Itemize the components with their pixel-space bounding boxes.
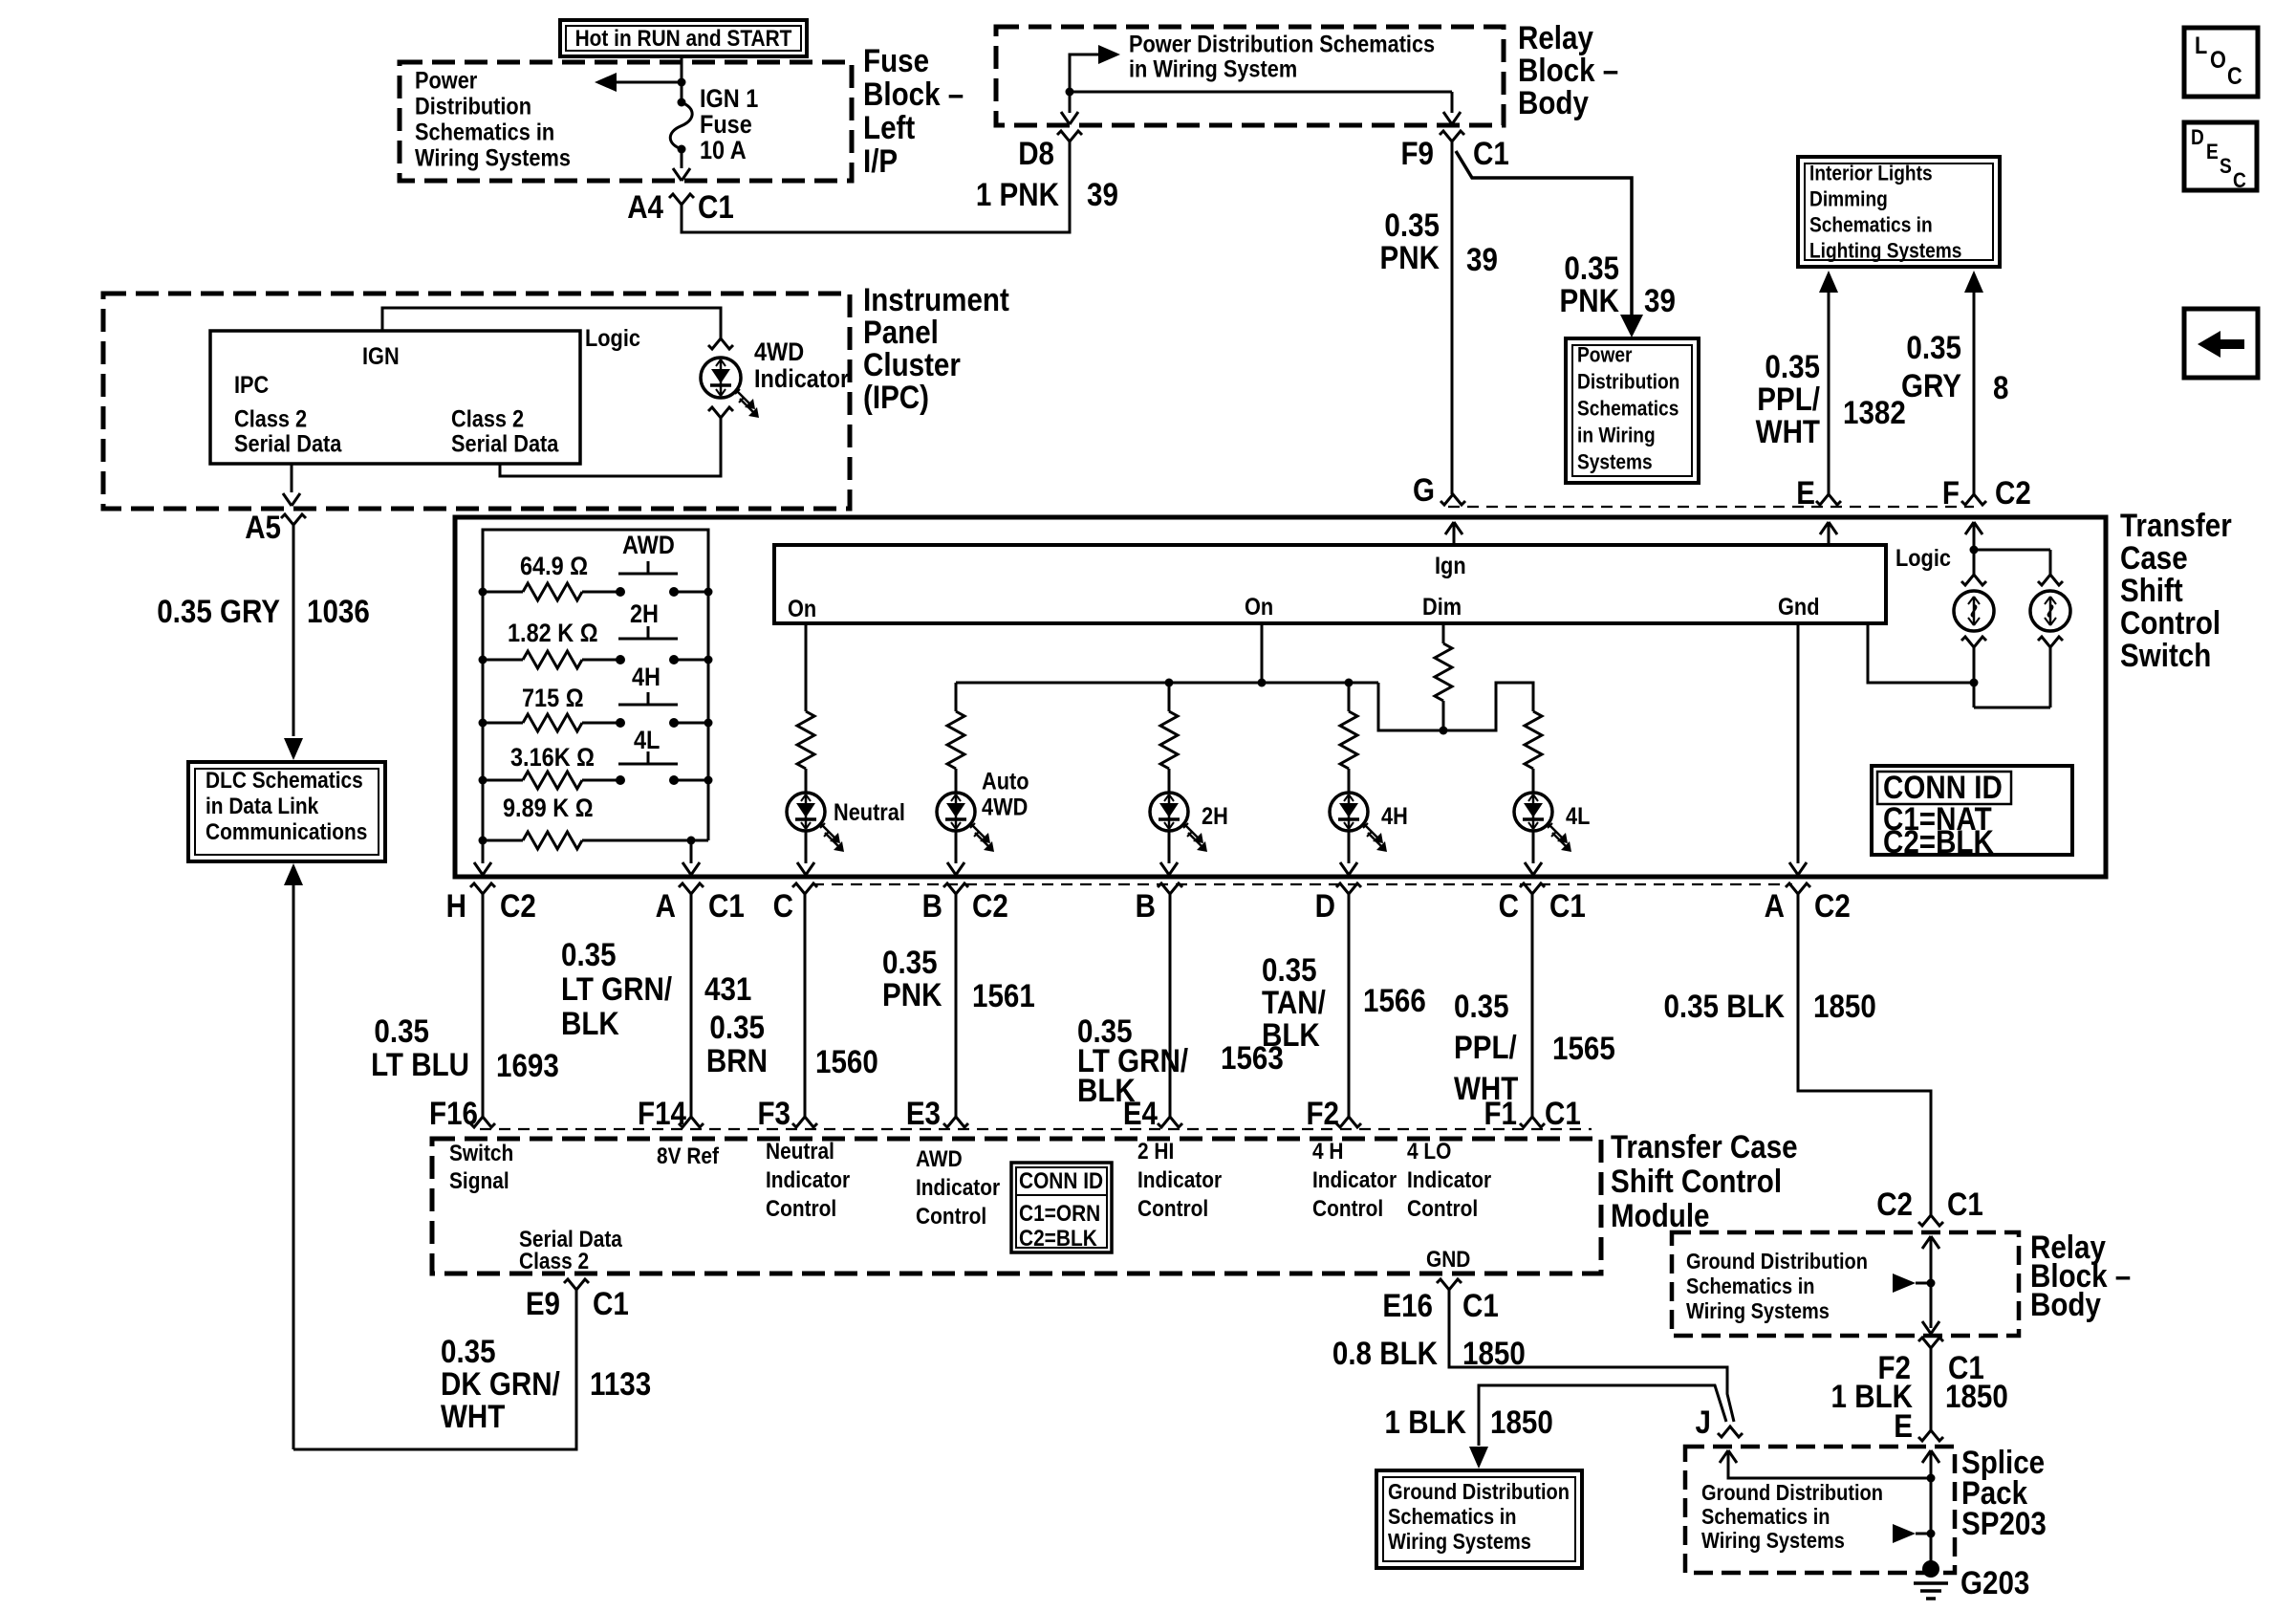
wire: 1 BLK 1850 to splice pack — [1930, 1348, 1933, 1430]
svg-text:C2=BLK: C2=BLK — [1883, 823, 1994, 860]
wire: ladder to H pin — [482, 840, 485, 863]
wire: Auto 4WD branch — [955, 683, 958, 711]
svg-text:0.35: 0.35 — [441, 1333, 496, 1369]
svg-text:C1: C1 — [1545, 1095, 1581, 1131]
svg-text:1133: 1133 — [590, 1365, 651, 1402]
svg-text:C2: C2 — [1876, 1186, 1913, 1222]
ground G203 — [1922, 1560, 1939, 1578]
connector F9 C1 — [1440, 131, 1464, 142]
svg-text:C2=BLK: C2=BLK — [1019, 1226, 1097, 1252]
dashed box: Transfer Case Shift Control Module — [432, 1139, 1601, 1274]
svg-text:0.35: 0.35 — [374, 1012, 429, 1049]
svg-text:4H: 4H — [1381, 803, 1408, 830]
svg-text:PPL/: PPL/ — [1757, 381, 1820, 417]
dashed box: Relay Block - Body (top) — [996, 27, 1504, 125]
thin dashed connector line above module — [480, 1128, 1592, 1130]
svg-text:WHT: WHT — [441, 1398, 506, 1434]
svg-text:E: E — [2206, 141, 2219, 164]
svg-text:J: J — [1696, 1404, 1711, 1440]
svg-text:On: On — [788, 596, 816, 622]
wire: LED to logic — [500, 418, 721, 476]
svg-text:Power: Power — [1577, 343, 1632, 367]
svg-text:Panel: Panel — [863, 314, 939, 350]
svg-text:1560: 1560 — [815, 1043, 878, 1079]
svg-text:Power: Power — [415, 67, 477, 94]
svg-text:1850: 1850 — [1945, 1378, 2008, 1414]
wire: indicator feed rail — [956, 682, 1378, 685]
svg-text:F2: F2 — [1306, 1095, 1339, 1131]
svg-text:Instrument: Instrument — [863, 281, 1009, 317]
svg-text:Cluster: Cluster — [863, 346, 961, 382]
svg-text:Neutral: Neutral — [766, 1138, 834, 1164]
svg-text:On: On — [1245, 594, 1273, 620]
svg-text:Relay: Relay — [1518, 19, 1593, 55]
DESC legend box — [2184, 122, 2257, 190]
svg-text:A4: A4 — [627, 188, 663, 225]
wire: Gnd to A pin — [1797, 623, 1800, 863]
node: fuse top — [678, 78, 686, 87]
svg-text:1561: 1561 — [972, 977, 1035, 1013]
svg-text:A: A — [1765, 887, 1785, 924]
splice arrow in relay block — [1893, 1274, 1916, 1293]
svg-text:PNK: PNK — [882, 976, 942, 1012]
svg-text:Block –: Block – — [863, 76, 964, 112]
svg-text:Ign: Ign — [1435, 553, 1466, 579]
wire: 2H branch — [1168, 683, 1171, 711]
resistor: Neutral branch — [797, 711, 814, 769]
svg-text:1850: 1850 — [1490, 1404, 1553, 1440]
wire: F feed arrow — [1965, 522, 1974, 534]
svg-text:2H: 2H — [1202, 803, 1228, 830]
svg-text:4L: 4L — [634, 727, 660, 755]
svg-text:4WD: 4WD — [754, 338, 804, 367]
svg-text:E: E — [1894, 1407, 1913, 1444]
svg-text:0.35: 0.35 — [1262, 951, 1317, 988]
svg-text:Systems: Systems — [1577, 450, 1653, 474]
svg-text:LT GRN/: LT GRN/ — [561, 970, 672, 1007]
connector into left lamp — [1961, 575, 1986, 585]
svg-text:0.35 GRY: 0.35 GRY — [157, 593, 280, 629]
svg-text:0.35: 0.35 — [1906, 329, 1961, 365]
svg-text:Indicator: Indicator — [1407, 1166, 1491, 1192]
wire: ladder to A pin — [690, 840, 693, 863]
svg-text:G203: G203 — [1960, 1564, 2029, 1600]
svg-text:1566: 1566 — [1363, 982, 1426, 1018]
svg-text:C1: C1 — [698, 188, 734, 225]
svg-text:IGN: IGN — [362, 343, 400, 370]
svg-text:4WD: 4WD — [982, 794, 1028, 820]
svg-text:C2: C2 — [1995, 474, 2031, 511]
wire: fuse output with arrow — [681, 149, 683, 168]
svg-text:C1: C1 — [1473, 135, 1509, 171]
connector F2 C1 — [1918, 1338, 1943, 1348]
wire: E PPL/WHT to interior lights — [1819, 271, 1838, 293]
svg-text:in Wiring: in Wiring — [1577, 424, 1656, 447]
svg-text:0.35: 0.35 — [1454, 988, 1509, 1024]
svg-text:1693: 1693 — [496, 1047, 559, 1083]
svg-text:Signal: Signal — [449, 1167, 509, 1193]
svg-text:431: 431 — [704, 970, 751, 1007]
splice arrow in splice pack — [1893, 1524, 1916, 1543]
dashed box: Instrument Panel Cluster (IPC) — [103, 294, 850, 509]
svg-text:C2: C2 — [500, 887, 536, 924]
svg-text:Indicator: Indicator — [1137, 1166, 1222, 1192]
svg-text:1.82 K Ω: 1.82 K Ω — [508, 620, 598, 648]
resistor 9.89K ohm row — [483, 839, 523, 842]
svg-text:Ground Distribution: Ground Distribution — [1686, 1249, 1868, 1274]
svg-text:Auto: Auto — [982, 768, 1029, 795]
svg-text:Switch: Switch — [2120, 637, 2211, 673]
svg-text:F: F — [1942, 474, 1960, 511]
svg-text:Fuse: Fuse — [700, 111, 752, 140]
svg-text:Control: Control — [1137, 1195, 1208, 1221]
resistor 3.16K ohm row — [483, 779, 523, 782]
connector E (splice pack) — [1918, 1430, 1943, 1441]
box: Ground Distribution Schematics in Wiring Systems (solid) — [1376, 1470, 1582, 1568]
svg-text:G: G — [1413, 471, 1435, 508]
svg-text:Class 2: Class 2 — [451, 405, 524, 432]
box: switch resistor ladder — [483, 530, 708, 840]
svg-text:Wiring Systems: Wiring Systems — [1686, 1298, 1830, 1324]
svg-text:39: 39 — [1644, 282, 1676, 318]
svg-text:in Wiring System: in Wiring System — [1129, 55, 1297, 82]
wire: Dim branch resistor — [1442, 623, 1445, 643]
connector fork C (switch side) — [792, 883, 817, 894]
lamp: right illumination — [2030, 591, 2070, 631]
LED: Neutral indicator — [787, 793, 825, 831]
svg-text:Control: Control — [916, 1203, 986, 1229]
fuse IGN 1 Fuse 10 A — [670, 102, 692, 149]
svg-text:C: C — [2227, 63, 2242, 90]
svg-text:O: O — [2210, 47, 2226, 74]
svg-text:SP203: SP203 — [1961, 1505, 2047, 1541]
svg-text:Dim: Dim — [1422, 594, 1462, 620]
LED: 4H indicator — [1330, 793, 1368, 831]
svg-text:Case: Case — [2120, 539, 2188, 576]
wire: ignition feed into fuse — [681, 56, 683, 82]
resistor 64.9 ohm row — [483, 591, 523, 594]
wire: class 2 serial data out — [291, 464, 293, 492]
svg-text:Body: Body — [2030, 1286, 2101, 1322]
wire: BLK 1850 route from A pin — [1798, 894, 1931, 1215]
bus bar: switch contacts strip — [774, 545, 1886, 623]
svg-text:C2: C2 — [972, 887, 1008, 924]
wire: down arrow at F9 — [1451, 92, 1454, 113]
svg-text:4H: 4H — [632, 664, 661, 692]
connector fork A (switch side) — [679, 883, 704, 894]
svg-text:E16: E16 — [1382, 1287, 1433, 1323]
svg-text:Class 2: Class 2 — [519, 1248, 589, 1274]
connector line C2 at switch top (dashed) — [1448, 506, 1974, 508]
wire: down arrow at D8 — [1069, 92, 1072, 113]
svg-text:8: 8 — [1993, 369, 2008, 405]
svg-text:Schematics: Schematics — [1577, 397, 1679, 421]
svg-text:PPL/: PPL/ — [1454, 1029, 1517, 1065]
svg-text:A: A — [656, 887, 676, 924]
svg-text:E3: E3 — [906, 1095, 941, 1131]
svg-text:Control: Control — [1407, 1195, 1478, 1221]
svg-text:4L: 4L — [1566, 803, 1590, 830]
connector fork A2 (switch side) — [1786, 883, 1810, 894]
vertical harness wires switch to module — [482, 894, 485, 1117]
svg-text:Shift: Shift — [2120, 572, 2183, 608]
dashed box: Splice Pack SP203 — [1685, 1447, 1955, 1573]
connector fork C4L (switch side) — [1520, 883, 1545, 894]
LOC legend box — [2184, 28, 2258, 97]
wire: E feed arrow — [1820, 522, 1829, 534]
arrow to power distribution schematics (right) — [1070, 54, 1102, 92]
wire: branch to power distribution box — [1456, 151, 1632, 316]
svg-text:1036: 1036 — [307, 593, 370, 629]
svg-text:DK GRN/: DK GRN/ — [441, 1365, 560, 1402]
svg-text:D8: D8 — [1018, 135, 1054, 171]
svg-text:1850: 1850 — [1813, 988, 1876, 1024]
svg-text:Left: Left — [863, 109, 916, 145]
svg-text:Indicator: Indicator — [916, 1174, 1000, 1200]
connector fork D (switch side) — [1336, 883, 1361, 894]
svg-text:D: D — [1315, 887, 1335, 924]
box: IPC logic block — [210, 331, 580, 464]
svg-text:Communications: Communications — [206, 818, 367, 844]
connector fork A (module side) — [679, 1117, 704, 1127]
svg-text:Serial Data: Serial Data — [451, 430, 559, 457]
svg-text:Control: Control — [2120, 604, 2220, 641]
wire: 0.8 BLK 1850 ground run — [1449, 1290, 1734, 1422]
svg-text:0.35: 0.35 — [882, 944, 938, 980]
resistor 1.82K ohm row — [483, 659, 523, 662]
svg-text:B: B — [922, 887, 942, 924]
connector fork C (module side) — [792, 1117, 817, 1127]
svg-text:F16: F16 — [429, 1095, 478, 1131]
connector fork H (module side) — [470, 1117, 495, 1127]
svg-text:D: D — [2191, 126, 2204, 150]
svg-text:E4: E4 — [1123, 1095, 1158, 1131]
connector fork G — [1440, 494, 1465, 505]
svg-text:I/P: I/P — [863, 142, 898, 179]
svg-text:1565: 1565 — [1552, 1030, 1615, 1066]
svg-text:Schematics in: Schematics in — [415, 119, 554, 145]
back-arrow legend box — [2184, 309, 2258, 378]
svg-text:Schematics in: Schematics in — [1809, 213, 1933, 237]
svg-text:Shift Control: Shift Control — [1611, 1163, 1782, 1199]
svg-text:4 H: 4 H — [1312, 1138, 1343, 1164]
wire: F9 to G — [1451, 142, 1454, 494]
svg-text:CONN ID: CONN ID — [1019, 1168, 1103, 1194]
svg-text:C2: C2 — [1814, 887, 1851, 924]
svg-text:2 HI: 2 HI — [1137, 1138, 1174, 1164]
svg-text:C1: C1 — [708, 887, 745, 924]
resistor 715 ohm row — [483, 722, 523, 725]
svg-text:H: H — [446, 887, 466, 924]
svg-text:BLK: BLK — [1262, 1016, 1320, 1053]
svg-text:Indicator: Indicator — [1312, 1166, 1397, 1192]
wire: junction to F9 — [1070, 91, 1452, 94]
dashed box: Relay Block - Body (bottom) — [1672, 1232, 2019, 1336]
svg-text:F9: F9 — [1400, 135, 1434, 171]
connector fork B (module side) — [943, 1117, 968, 1127]
svg-text:Fuse: Fuse — [863, 42, 929, 78]
svg-text:Dimming: Dimming — [1809, 187, 1888, 211]
svg-text:C1=ORN: C1=ORN — [1019, 1201, 1100, 1227]
svg-text:Wiring Systems: Wiring Systems — [1388, 1529, 1531, 1555]
LED: 4WD Indicator — [701, 358, 741, 398]
connector fork B2 (module side) — [1158, 1117, 1182, 1127]
svg-text:Gnd: Gnd — [1778, 594, 1819, 620]
wire: A4 to D8 run — [682, 142, 1070, 232]
thin dashed connector line below switch — [812, 883, 1792, 885]
CONN ID legend (switch): C1=NAT C2=BLK — [1872, 766, 2072, 855]
box: Power Distribution Schematics in Wiring Systems — [1566, 338, 1699, 483]
svg-text:Indicator: Indicator — [754, 365, 849, 394]
svg-text:Logic: Logic — [585, 325, 640, 352]
svg-text:0.8 BLK: 0.8 BLK — [1332, 1335, 1438, 1371]
svg-text:A5: A5 — [245, 509, 281, 545]
LED: 2H indicator — [1150, 793, 1188, 831]
connector fork C4L (module side) — [1520, 1117, 1545, 1127]
svg-text:10 A: 10 A — [700, 137, 747, 165]
svg-text:TAN/: TAN/ — [1262, 984, 1326, 1020]
wire: Ign feed arrow from G — [1445, 522, 1454, 534]
svg-text:Module: Module — [1611, 1197, 1709, 1233]
connector fork D (module side) — [1336, 1117, 1361, 1127]
svg-text:GND: GND — [1426, 1247, 1470, 1273]
svg-text:2H: 2H — [630, 600, 659, 629]
svg-text:4 LO: 4 LO — [1407, 1138, 1451, 1164]
resistor: 4L branch — [1525, 711, 1542, 769]
svg-text:Distribution: Distribution — [1577, 370, 1679, 394]
svg-text:B: B — [1136, 887, 1156, 924]
svg-text:Control: Control — [766, 1195, 836, 1221]
connector fork E — [1816, 494, 1841, 505]
svg-text:(IPC): (IPC) — [863, 379, 929, 415]
svg-text:PNK: PNK — [1560, 282, 1619, 318]
svg-text:1 BLK: 1 BLK — [1385, 1404, 1466, 1440]
svg-text:BLK: BLK — [561, 1005, 619, 1041]
svg-text:1 PNK: 1 PNK — [976, 176, 1059, 212]
svg-text:Block –: Block – — [1518, 52, 1618, 88]
svg-text:C: C — [773, 887, 793, 924]
svg-text:L: L — [2195, 33, 2207, 59]
svg-text:Hot in RUN and START: Hot in RUN and START — [575, 26, 792, 52]
wire: 1 BLK 1850 branch to ground distribution — [1479, 1385, 1726, 1446]
svg-text:Lighting Systems: Lighting Systems — [1809, 239, 1961, 263]
wire: IGN to 4WD indicator — [382, 308, 721, 338]
svg-text:IPC: IPC — [234, 372, 269, 399]
svg-text:Transfer Case: Transfer Case — [1611, 1128, 1798, 1165]
svg-text:LT BLU: LT BLU — [371, 1046, 469, 1082]
wires inside splice pack — [1922, 1450, 1931, 1463]
svg-text:in Data Link: in Data Link — [206, 793, 319, 818]
wire: lamp returns — [1973, 647, 1976, 708]
svg-text:1850: 1850 — [1462, 1335, 1526, 1371]
svg-text:Neutral: Neutral — [834, 799, 905, 826]
svg-text:Logic: Logic — [1895, 545, 1951, 572]
wire: dim sub-rail to 4L — [1378, 683, 1533, 730]
svg-text:C1: C1 — [593, 1285, 629, 1321]
svg-text:F14: F14 — [638, 1095, 686, 1131]
svg-text:E: E — [1796, 474, 1815, 511]
svg-text:Body: Body — [1518, 84, 1589, 120]
svg-text:0.35: 0.35 — [1564, 250, 1619, 286]
connector E16 C1 (GND) — [1437, 1279, 1462, 1290]
svg-text:8V Ref: 8V Ref — [657, 1143, 719, 1169]
svg-text:Switch: Switch — [449, 1140, 513, 1165]
svg-text:Schematics in: Schematics in — [1701, 1504, 1830, 1530]
wire: F GRY to interior lights — [1964, 271, 1983, 293]
svg-text:0.35: 0.35 — [709, 1009, 765, 1045]
svg-text:0.35: 0.35 — [1765, 348, 1820, 384]
svg-text:F1: F1 — [1484, 1095, 1517, 1131]
connector fork F — [1961, 494, 1986, 505]
svg-text:39: 39 — [1466, 241, 1498, 277]
wire: A5 to DLC — [292, 525, 295, 736]
connector E9 C1 — [564, 1279, 589, 1290]
svg-text:F3: F3 — [757, 1095, 791, 1131]
svg-text:0.35: 0.35 — [561, 936, 617, 972]
svg-text:C: C — [2233, 169, 2246, 193]
svg-text:GRY: GRY — [1901, 367, 1961, 403]
wire: On (2nd) to indicator rail — [1261, 623, 1264, 683]
svg-text:Power Distribution Schematics: Power Distribution Schematics — [1129, 31, 1435, 57]
svg-text:C1: C1 — [1549, 887, 1586, 924]
connector A4 C1 — [669, 194, 694, 205]
svg-text:Wiring Systems: Wiring Systems — [415, 144, 571, 171]
svg-text:3.16K Ω: 3.16K Ω — [510, 744, 595, 773]
wire through relay block — [1922, 1236, 1931, 1249]
svg-text:Indicator: Indicator — [766, 1166, 850, 1192]
svg-text:Serial Data: Serial Data — [234, 430, 342, 457]
LED: 4L indicator — [1514, 793, 1552, 831]
svg-text:C1: C1 — [1947, 1186, 1983, 1222]
svg-text:Ground Distribution: Ground Distribution — [1388, 1479, 1570, 1505]
svg-text:9.89 K Ω: 9.89 K Ω — [503, 795, 594, 823]
svg-text:Transfer: Transfer — [2120, 507, 2232, 543]
box: Hot in RUN and START — [560, 20, 807, 56]
svg-text:1382: 1382 — [1843, 394, 1906, 430]
svg-text:Wiring Systems: Wiring Systems — [1701, 1528, 1845, 1554]
svg-text:64.9 Ω: 64.9 Ω — [520, 553, 588, 581]
connector fork H (switch side) — [470, 883, 495, 894]
svg-text:Control: Control — [1312, 1195, 1383, 1221]
svg-text:WHT: WHT — [1756, 413, 1821, 449]
wire: On to Neutral branch — [805, 623, 808, 711]
wire: bus to lamp return — [1868, 623, 1974, 683]
connector fork B2 (switch side) — [1158, 883, 1182, 894]
box: DLC Schematics in Data Link Communications — [188, 762, 385, 861]
svg-text:AWD: AWD — [622, 532, 675, 560]
svg-text:Ground Distribution: Ground Distribution — [1701, 1480, 1883, 1506]
svg-text:Class 2: Class 2 — [234, 405, 307, 432]
svg-text:S: S — [2220, 155, 2232, 179]
svg-text:PNK: PNK — [1380, 239, 1440, 275]
svg-text:C: C — [1499, 887, 1519, 924]
node: relay block junction — [1066, 88, 1074, 97]
connector fork B (switch side) — [943, 883, 968, 894]
connector into right lamp — [2038, 575, 2063, 585]
svg-text:C1: C1 — [1462, 1287, 1499, 1323]
svg-text:39: 39 — [1087, 176, 1118, 212]
box: Interior Lights Dimming Schematics in Lighting Systems — [1798, 157, 2000, 267]
svg-text:AWD: AWD — [916, 1145, 963, 1171]
LED: Auto 4WD indicator — [937, 793, 975, 831]
svg-text:Interior Lights: Interior Lights — [1809, 162, 1933, 185]
svg-text:715 Ω: 715 Ω — [522, 685, 584, 713]
svg-text:E9: E9 — [526, 1285, 560, 1321]
connector A5 — [281, 514, 306, 525]
svg-text:0.35: 0.35 — [1384, 207, 1440, 243]
arrow to power distribution (left) — [606, 81, 682, 84]
connector fork J — [1718, 1426, 1743, 1437]
